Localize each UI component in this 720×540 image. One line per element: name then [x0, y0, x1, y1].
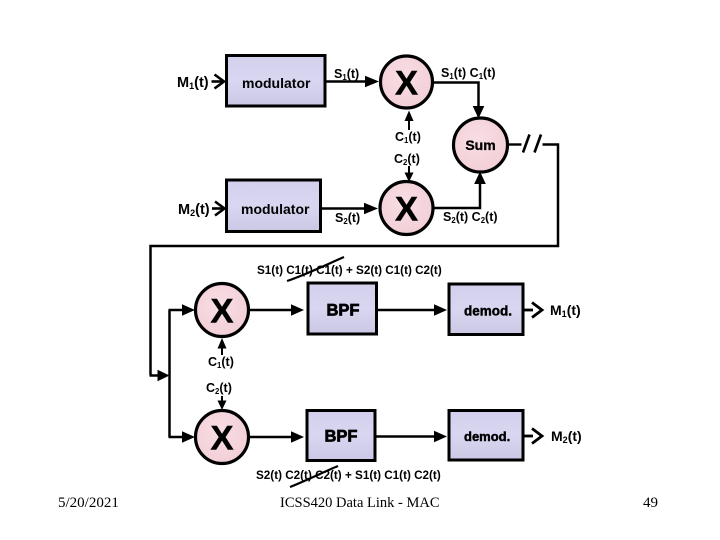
svg-text:C2(t): C2(t)	[206, 381, 232, 396]
junction arrow into trunk	[150, 370, 170, 381]
svg-text:C1(t): C1(t)	[208, 355, 234, 370]
wire multiplier X1 to Sum	[432, 83, 484, 119]
svg-text:C1(t): C1(t)	[395, 130, 421, 145]
arrow into modulator U1	[212, 75, 225, 89]
wire multiplier X3 to BPF1	[249, 304, 304, 315]
wire channel to lower stage (right and down, long left, down to junction)	[151, 145, 559, 376]
svg-text:S2(t) C2(t): S2(t) C2(t)	[443, 210, 498, 225]
label M2(t) output	[551, 428, 582, 445]
label S1(t) C1(t)	[441, 66, 496, 81]
multiplier X4 circle	[196, 411, 249, 464]
BPF1 label	[327, 302, 360, 320]
svg-text:S1(t) C1(t): S1(t) C1(t)	[441, 66, 496, 81]
carrier arrow C2 into X2	[405, 166, 414, 182]
wire BPF2 to demod2	[375, 431, 447, 442]
svg-text:BPF: BPF	[327, 302, 360, 320]
demod1 box	[449, 284, 523, 335]
carrier arrow C1 into X1	[405, 111, 414, 131]
wire modulator U1 to multiplier X1	[326, 76, 379, 87]
modulator U1 label	[242, 75, 311, 91]
demod2 label	[464, 429, 510, 444]
svg-text:BPF: BPF	[325, 428, 358, 446]
summer Sum circle	[454, 118, 508, 172]
svg-text:M1(t): M1(t)	[177, 75, 209, 91]
svg-text:X: X	[395, 191, 418, 229]
multiplier X1 circle	[381, 56, 433, 108]
strike slash over C1(t) C1(t)	[287, 257, 344, 281]
svg-text:X: X	[210, 420, 233, 458]
trunk wire to multipliers X3 X4	[168, 310, 171, 437]
BPF2 box	[307, 411, 375, 461]
wire trunk to multiplier X3	[169, 304, 196, 315]
label S2(t) C2(t)	[443, 210, 498, 225]
svg-text:S2(t) C2(t) C2(t) + S1(t) C1(t: S2(t) C2(t) C2(t) + S1(t) C1(t) C2(t)	[256, 469, 441, 482]
label S1(t)	[334, 67, 359, 82]
multiplier X3 circle	[196, 284, 249, 337]
footer title	[280, 495, 440, 512]
demod2 box	[449, 411, 523, 461]
svg-text:Sum: Sum	[465, 137, 495, 153]
svg-text:M2(t): M2(t)	[178, 202, 210, 218]
svg-text:M2(t): M2(t)	[551, 428, 582, 445]
svg-text:S2(t): S2(t)	[335, 211, 360, 226]
svg-text:M1(t): M1(t)	[550, 302, 581, 319]
svg-text:demod.: demod.	[464, 429, 510, 444]
output arrow M2(t)	[523, 429, 542, 444]
svg-text:modulator: modulator	[241, 201, 310, 217]
label M1(t) output	[550, 302, 581, 319]
wire trunk to multiplier X4	[169, 431, 196, 442]
modulator U2 box	[227, 180, 321, 232]
BPF2 label	[325, 428, 358, 446]
label S2(t)	[335, 211, 360, 226]
wire multiplier X2 to Sum	[434, 172, 486, 209]
label C1(t)	[395, 130, 421, 145]
footer date	[0, 495, 720, 515]
label C2(t)	[394, 152, 420, 167]
footer page number	[643, 495, 658, 512]
wire Sum output to channel break	[508, 143, 522, 145]
BPF1 box	[308, 283, 377, 334]
svg-text:X: X	[210, 293, 233, 331]
wire multiplier X4 to BPF2	[249, 431, 304, 442]
wire BPF1 to demod1	[377, 304, 447, 315]
svg-text:S1(t) C1(t) C1(t) + S2(t) C1(t: S1(t) C1(t) C1(t) + S2(t) C1(t) C2(t)	[257, 264, 442, 277]
wire modulator U2 to multiplier X2	[322, 203, 378, 214]
multiplier X2 circle	[380, 182, 433, 235]
label M1(t) input	[177, 75, 209, 91]
label sum signal S2(t) C2(t) C2(t) + S1(t) C1(t) C2(t)	[256, 469, 441, 482]
output arrow M1(t)	[523, 303, 542, 318]
carrier arrow C2 into X4	[218, 396, 227, 410]
svg-text:modulator: modulator	[242, 75, 311, 91]
label sum signal S1(t) C1(t) C1(t) + S2(t) C1(t) C2(t)	[257, 264, 442, 277]
modulator U2 label	[241, 201, 310, 217]
arrow into modulator U2	[212, 202, 225, 216]
svg-text:demod.: demod.	[464, 304, 512, 319]
strike slash over C2(t) C2(t)	[290, 466, 338, 487]
label C2(t) lower	[206, 381, 232, 396]
svg-text:C2(t): C2(t)	[394, 152, 420, 167]
carrier arrow C1 into X3	[218, 338, 227, 355]
label M2(t) input	[178, 202, 210, 218]
svg-text:S1(t): S1(t)	[334, 67, 359, 82]
modulator U1 box	[227, 56, 326, 107]
demod1 label	[464, 304, 512, 319]
svg-text:X: X	[395, 65, 418, 103]
label C1(t) lower	[208, 355, 234, 370]
channel break slashes	[523, 135, 541, 153]
